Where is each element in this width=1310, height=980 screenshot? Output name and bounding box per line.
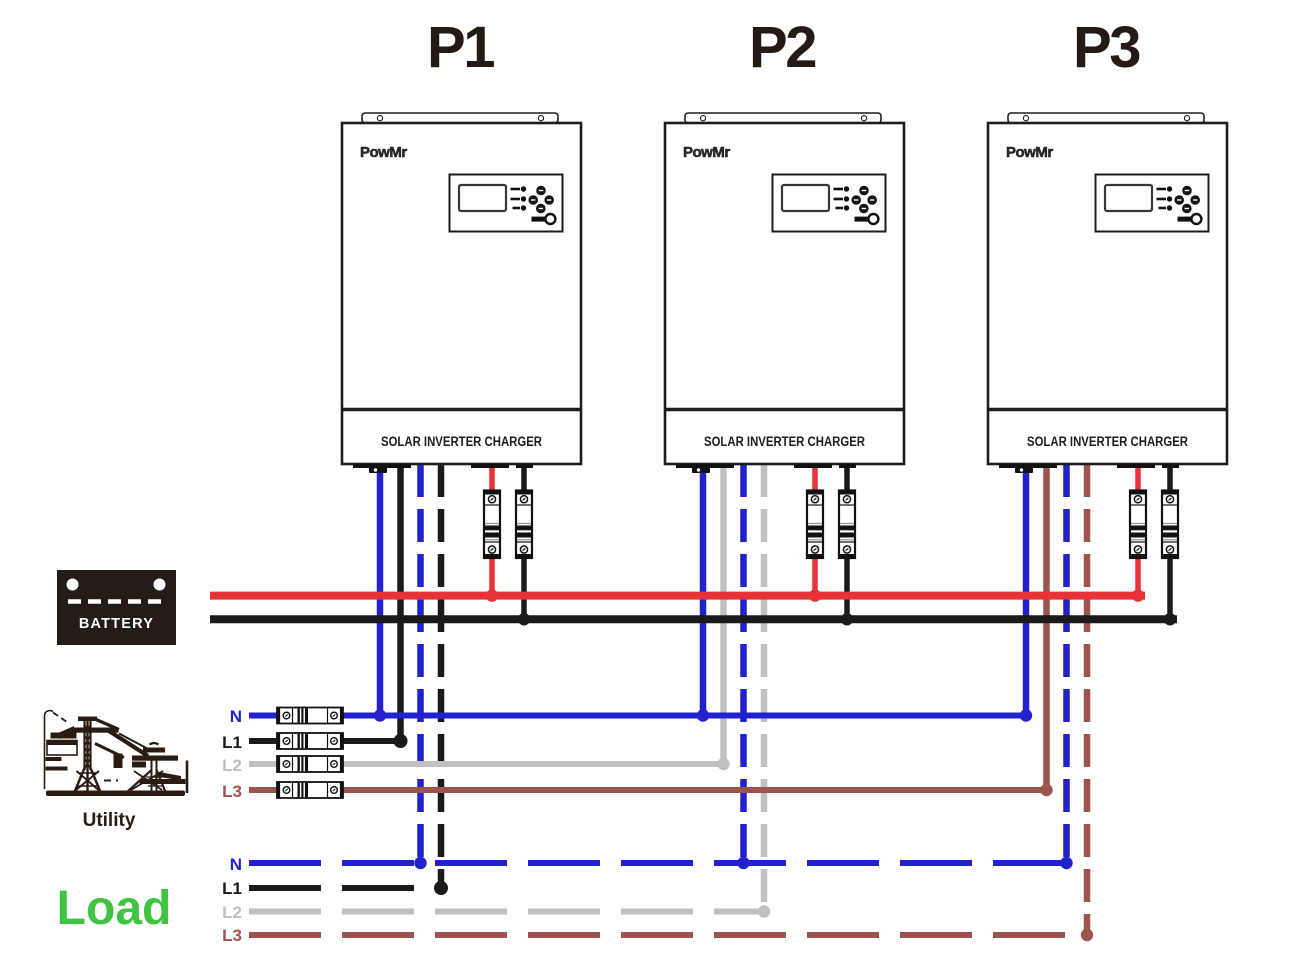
wire P2 battery+ red [812,464,818,596]
wire P3 N solid blue [1023,464,1030,716]
svg-text:P1: P1 [427,15,494,80]
breaker P3 battery+ [1130,490,1147,559]
wire P1 battery- black [521,464,527,619]
wire battery negative bus [210,615,1177,623]
node utility N P1 [374,709,386,721]
battery [57,570,176,645]
breaker P1 battery- [516,490,533,559]
wire load L2 dashed [249,909,758,915]
wire battery positive bus [210,592,1145,600]
breaker P2 battery- [839,490,856,559]
svg-text:N: N [230,707,242,726]
breaker P2 battery+ [807,490,824,559]
node load L3 P3 [1081,929,1093,941]
breaker utility L1 [277,733,344,750]
node load N P2 [737,857,749,869]
svg-text:N: N [230,855,242,874]
node utility L2 P2 [717,758,729,770]
node load L1 P1 [434,881,448,895]
wire utility L2 [249,761,729,767]
wire utility L1 [249,738,406,744]
svg-text:L2: L2 [222,756,242,775]
wire P1 L1-out dashed black [438,464,445,883]
node load L2 P2 [758,905,770,917]
node utility L3 P3 [1040,784,1052,796]
svg-text:L3: L3 [222,782,242,801]
svg-text:BATTERY: BATTERY [79,616,154,632]
inverter P3 [988,113,1227,473]
svg-text:L3: L3 [222,926,242,945]
node battery- P2 [841,613,853,625]
node battery+ P2 [809,589,821,601]
utility pylons [45,711,188,797]
wire P1 N-out dashed blue [417,464,424,863]
svg-text:Load: Load [57,882,172,935]
svg-text:P3: P3 [1073,15,1140,80]
wire P3 N-out dashed blue [1063,464,1070,863]
wire P2 N solid blue [700,464,707,716]
wire P1 battery+ red [489,464,495,596]
svg-text:L2: L2 [222,903,242,922]
inverter P1 [342,113,581,473]
wire load L1 dashed [249,885,420,891]
breaker utility L2 [277,756,344,773]
wire P1 L1 solid black [397,464,404,741]
wire P3 battery- black [1167,464,1173,619]
svg-text:Utility: Utility [83,810,136,831]
wire P3 battery+ red [1135,464,1141,596]
wire P2 battery- black [844,464,850,619]
node utility L1 P1 [394,734,408,748]
wire P3 L3 solid brown [1043,464,1050,790]
wire utility N [249,713,1031,719]
wire P3 L3-out dashed brown [1084,464,1091,935]
node load N P1 [414,857,426,869]
node battery+ P1 [486,589,498,601]
svg-text:L1: L1 [222,879,242,898]
wire load L3 dashed [249,932,1080,938]
breaker utility L3 [277,782,344,799]
wire P2 L2 solid gray [720,464,727,764]
node battery- P1 [518,613,530,625]
node load N P3 [1060,857,1072,869]
breaker utility N [277,707,344,724]
node utility N P2 [697,709,709,721]
wire load N dashed [249,860,1066,866]
node utility N P3 [1020,709,1032,721]
wire P1 N solid blue [377,464,384,716]
node battery+ P3 [1132,589,1144,601]
svg-text:P2: P2 [749,15,815,80]
svg-text:L1: L1 [222,733,242,752]
wire utility L3 [249,787,1052,793]
wire P2 N-out dashed blue [740,464,747,863]
wire P2 L2-out dashed gray [761,464,768,912]
node battery- P3 [1164,613,1176,625]
inverter P2 [665,113,904,473]
breaker P3 battery- [1162,490,1179,559]
breaker P1 battery+ [484,490,501,559]
